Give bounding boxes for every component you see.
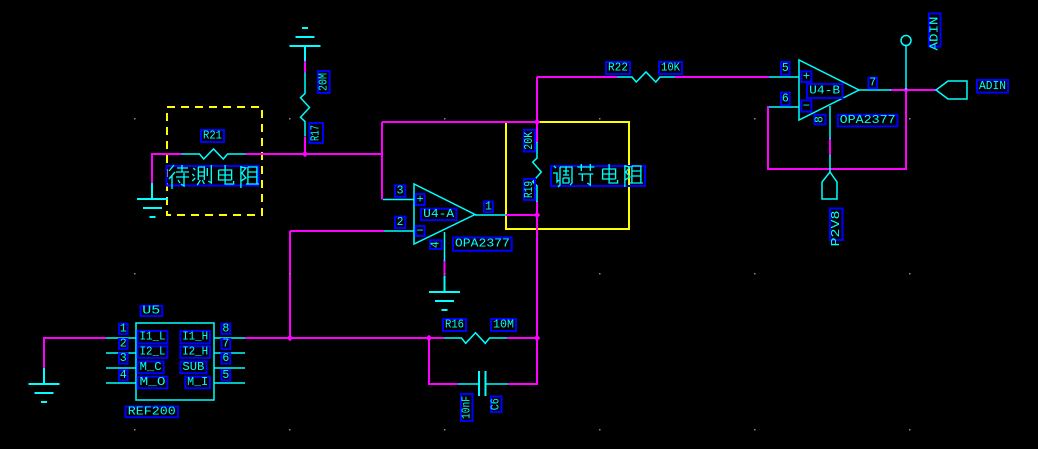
U5 pin name M_O bbox=[138, 376, 168, 389]
ground under U4-A pin4 bbox=[429, 292, 460, 310]
wire pin2 loop down x290 bbox=[289, 231, 291, 338]
label OPA2377 (U4-A) bbox=[453, 238, 512, 251]
U4-B pin 8 line bbox=[829, 106, 831, 139]
svg-text:I2_H: I2_H bbox=[182, 346, 208, 359]
wire U4-A pin4 segment bbox=[444, 260, 446, 277]
junction node A (R21/R17) bbox=[302, 151, 309, 158]
U5 pin 8 number bbox=[222, 322, 231, 335]
svg-text:OPA2377: OPA2377 bbox=[840, 114, 896, 127]
U5 right pin 5 line bbox=[214, 382, 245, 384]
wire U4-A output to node bbox=[505, 214, 537, 216]
pin 3 number bbox=[395, 185, 405, 198]
resistor R22 bbox=[617, 72, 675, 82]
svg-text:SUB: SUB bbox=[182, 361, 204, 374]
op-amp U4-A triangle bbox=[414, 184, 475, 244]
pin 5 number bbox=[781, 62, 790, 75]
pin 4 number (rotated) bbox=[429, 240, 442, 249]
svg-text:M_O: M_O bbox=[140, 376, 166, 389]
wire R19 bottom to output node bbox=[536, 201, 538, 338]
ground bottom left (U5) bbox=[29, 384, 60, 402]
svg-text:7: 7 bbox=[222, 338, 229, 351]
svg-text:OPA2377: OPA2377 bbox=[455, 238, 510, 251]
U5 pin 1 number bbox=[119, 322, 128, 335]
svg-text:3: 3 bbox=[120, 352, 127, 365]
svg-text:M_I: M_I bbox=[187, 376, 208, 389]
U4-A pin 1 output line bbox=[475, 214, 506, 216]
U5 right pin 6 line bbox=[214, 367, 245, 369]
wire C6 branch left bbox=[429, 338, 458, 384]
wire R21 right to pin3 column bbox=[245, 153, 382, 155]
svg-text:4: 4 bbox=[120, 369, 127, 382]
annotation text 待测电阻 (resistor under test) bbox=[167, 165, 259, 189]
svg-text:2: 2 bbox=[397, 216, 404, 229]
wire U4-B pin8 segment bbox=[829, 138, 831, 156]
svg-text:I1_H: I1_H bbox=[182, 331, 208, 344]
resistor R17 bbox=[301, 73, 310, 137]
svg-text:10K: 10K bbox=[661, 62, 680, 75]
label U4-A plus bbox=[416, 193, 425, 207]
wire bottom node U5pin8 to R16 bbox=[245, 337, 444, 339]
junction C6 branch left bbox=[426, 335, 433, 342]
IC U5 REF200 body bbox=[136, 323, 214, 400]
label ADIN port bbox=[977, 80, 1008, 93]
U5 pin 3 number bbox=[119, 352, 128, 365]
power port P2V8 symbol bbox=[822, 172, 837, 199]
svg-text:2: 2 bbox=[120, 338, 127, 351]
resistor R16 bbox=[444, 333, 507, 344]
svg-text:R16: R16 bbox=[445, 319, 464, 332]
resistor R21 bbox=[182, 149, 246, 159]
wire x537 corner to R22 bbox=[536, 77, 538, 122]
ground above R17 (flipped) bbox=[290, 28, 321, 46]
junction x537 bottom node bbox=[534, 335, 541, 342]
U5 pin 2 number bbox=[119, 338, 128, 351]
svg-text:7: 7 bbox=[869, 77, 876, 90]
svg-text:U5: U5 bbox=[142, 304, 160, 317]
wire vertical x537 top bbox=[536, 122, 538, 143]
pin 1 number bbox=[484, 200, 493, 213]
ground stem U4-A bbox=[444, 276, 446, 292]
label REF200 bbox=[126, 405, 179, 418]
label R19 (rotated) bbox=[523, 179, 536, 200]
label 20K (rotated) bbox=[523, 130, 536, 152]
svg-text:5: 5 bbox=[782, 62, 789, 75]
U4-B pin 5 line bbox=[769, 76, 799, 78]
label U5 bbox=[141, 304, 163, 317]
wire C6 branch right bbox=[508, 338, 537, 384]
U5 right pin 7 line bbox=[214, 352, 245, 354]
U4-B pin 6 line bbox=[769, 106, 799, 108]
label 10K bbox=[659, 62, 682, 75]
svg-text:+: + bbox=[803, 70, 810, 84]
U5 pin 7 number bbox=[222, 338, 231, 351]
svg-text:R22: R22 bbox=[608, 62, 628, 75]
label OPA2377 (U4-B) bbox=[838, 114, 898, 127]
svg-text:20K: 20K bbox=[523, 132, 536, 150]
wire U4-A pin2 from x290 bbox=[290, 230, 384, 232]
U4-B pin 7 output line bbox=[859, 89, 891, 91]
U5 pin 6 number bbox=[222, 352, 231, 365]
svg-text:ADIN: ADIN bbox=[979, 80, 1006, 93]
pin 6 number bbox=[781, 92, 790, 105]
svg-text:+: + bbox=[416, 193, 423, 207]
svg-text:ADIN: ADIN bbox=[928, 17, 941, 51]
wire R22 left bbox=[537, 76, 617, 78]
junction pin2 loop / bottom node bbox=[287, 335, 294, 342]
no-connect circle ADIN bbox=[901, 36, 911, 46]
dashed annotation box (resistor under test) bbox=[167, 107, 262, 215]
U5 pin name I2_H bbox=[180, 346, 210, 359]
wire NC circle to output bbox=[905, 46, 907, 90]
label R22 bbox=[606, 62, 630, 75]
U5 pin name I1_L bbox=[138, 331, 168, 344]
U4-A pin 2 line bbox=[384, 230, 414, 232]
svg-text:−: − bbox=[416, 224, 423, 238]
label 20M (rotated) bbox=[317, 71, 330, 93]
svg-text:U4-B: U4-B bbox=[809, 85, 840, 98]
svg-text:I1_L: I1_L bbox=[140, 331, 166, 344]
svg-text:8: 8 bbox=[814, 116, 827, 123]
label U4-A bbox=[421, 208, 456, 221]
U5 pin name SUB bbox=[180, 361, 206, 374]
ground stem top bbox=[304, 46, 306, 61]
junction U4-B output / NC branch bbox=[903, 87, 909, 93]
pin 2 number bbox=[395, 216, 405, 229]
port ADIN bbox=[936, 81, 967, 99]
svg-text:P2V8: P2V8 bbox=[829, 211, 843, 247]
svg-text:6: 6 bbox=[782, 92, 789, 105]
svg-text:U4-A: U4-A bbox=[423, 208, 454, 221]
svg-text:REF200: REF200 bbox=[128, 405, 176, 418]
wire U5 pin1 to ground bbox=[44, 338, 106, 368]
wire R21 left to ground corner bbox=[152, 154, 182, 183]
wire node A vertical x382 bbox=[381, 122, 383, 200]
U5 pin name M_I bbox=[185, 376, 210, 389]
svg-text:R19: R19 bbox=[523, 181, 536, 198]
svg-text:10nF: 10nF bbox=[460, 396, 473, 419]
svg-text:C6: C6 bbox=[490, 398, 503, 410]
label R17 (rotated) bbox=[310, 123, 324, 143]
capacitor C6 bbox=[458, 371, 508, 396]
svg-text:I2_L: I2_L bbox=[140, 346, 166, 359]
pin 7 number bbox=[868, 77, 877, 90]
wire R22 right to U4-B pin5 bbox=[675, 76, 769, 78]
label U4-B minus bbox=[801, 99, 811, 113]
svg-text:1: 1 bbox=[120, 322, 127, 335]
label U4-B bbox=[807, 84, 842, 98]
svg-text:R21: R21 bbox=[203, 130, 222, 143]
net label ADIN (rotated) bbox=[928, 14, 941, 51]
solid annotation box (adjust resistor) bbox=[506, 122, 629, 229]
svg-text:10M: 10M bbox=[493, 319, 514, 332]
label U4-B plus bbox=[801, 70, 811, 84]
pin 8 number (rotated) bbox=[814, 115, 827, 125]
svg-text:1: 1 bbox=[485, 200, 492, 213]
wire U4-B output bbox=[890, 89, 936, 91]
wire R16 right to x537 bbox=[507, 337, 537, 339]
label P2V8 (rotated) bbox=[829, 209, 843, 247]
svg-text:M_C: M_C bbox=[140, 361, 162, 374]
ground stem U5 bbox=[43, 368, 45, 384]
svg-text:−: − bbox=[803, 99, 810, 113]
svg-text:4: 4 bbox=[429, 241, 442, 248]
label U4-A minus bbox=[416, 224, 425, 238]
svg-text:5: 5 bbox=[222, 369, 229, 382]
U5 pin name I1_H bbox=[180, 331, 210, 344]
ground stem left bbox=[151, 183, 153, 199]
U5 left pin 4 line bbox=[106, 382, 136, 384]
label C6 (rotated) bbox=[490, 397, 503, 413]
svg-text:20M: 20M bbox=[317, 73, 330, 91]
svg-text:R17: R17 bbox=[310, 125, 323, 141]
label 10nF (rotated) bbox=[460, 394, 473, 421]
svg-text:3: 3 bbox=[397, 185, 404, 198]
ground left of R21 bbox=[137, 199, 168, 217]
op-amp U4-B triangle bbox=[799, 60, 859, 120]
annotation text 调节电阻 (adjust resistor) bbox=[551, 164, 645, 187]
U5 left pin 1 line bbox=[106, 337, 136, 339]
svg-text:6: 6 bbox=[222, 352, 229, 365]
U5 left pin 2 line bbox=[106, 352, 136, 354]
wire R17 top (ground to resistor) bbox=[304, 60, 306, 73]
wire U4-B pin6 feedback loop bbox=[768, 92, 906, 169]
wire node A horizontal y122 bbox=[382, 121, 537, 123]
U5 pin 4 number bbox=[119, 369, 128, 382]
wire R17 bottom to node A bbox=[304, 137, 306, 154]
label R16 bbox=[443, 319, 466, 332]
grid dots (decorative) bbox=[134, 118, 136, 120]
label 10M bbox=[491, 319, 516, 332]
junction wire/R22 corner node bbox=[534, 119, 541, 126]
U5 right pin 8 line bbox=[214, 337, 245, 339]
U5 pin name M_C bbox=[138, 361, 164, 374]
U5 pin 5 number bbox=[222, 369, 231, 382]
U4-A pin 3 line bbox=[383, 199, 414, 201]
U5 left pin 3 line bbox=[106, 367, 136, 369]
svg-text:8: 8 bbox=[222, 322, 229, 335]
U4-A pin 4 line bbox=[444, 232, 446, 261]
junction U4-A output / R19 bbox=[534, 212, 541, 219]
label R21 bbox=[201, 130, 224, 143]
U5 pin name I2_L bbox=[138, 346, 168, 359]
resistor R19 bbox=[533, 142, 542, 202]
